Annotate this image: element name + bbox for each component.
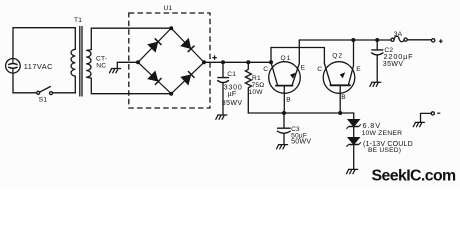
svg-text:R1: R1 bbox=[252, 75, 261, 82]
svg-text:35WV: 35WV bbox=[222, 100, 243, 107]
svg-text:Q1: Q1 bbox=[281, 55, 292, 62]
svg-text:E: E bbox=[301, 65, 306, 72]
svg-text:µF: µF bbox=[228, 91, 237, 98]
svg-text:B: B bbox=[341, 94, 346, 101]
svg-text:BE USED): BE USED) bbox=[368, 147, 401, 154]
svg-text:C1: C1 bbox=[227, 71, 236, 78]
svg-text:Q2: Q2 bbox=[332, 53, 343, 60]
svg-text:C: C bbox=[263, 66, 268, 73]
svg-text:S1: S1 bbox=[39, 97, 48, 104]
svg-text:35WV: 35WV bbox=[383, 61, 404, 68]
svg-text:T1: T1 bbox=[74, 17, 82, 24]
svg-text:117VAC: 117VAC bbox=[24, 62, 53, 71]
svg-text:E: E bbox=[356, 66, 361, 73]
svg-text:10W: 10W bbox=[249, 89, 264, 96]
svg-text:6.8V: 6.8V bbox=[363, 121, 381, 130]
svg-text:SeekIC.com: SeekIC.com bbox=[372, 168, 457, 185]
svg-text:3A: 3A bbox=[394, 31, 403, 38]
svg-text:U1: U1 bbox=[164, 5, 173, 12]
svg-text:B: B bbox=[286, 96, 291, 103]
svg-text:NC: NC bbox=[96, 62, 106, 69]
svg-text:C: C bbox=[317, 66, 322, 73]
svg-text:50WV: 50WV bbox=[291, 139, 311, 146]
svg-text:10W ZENER: 10W ZENER bbox=[362, 130, 403, 137]
